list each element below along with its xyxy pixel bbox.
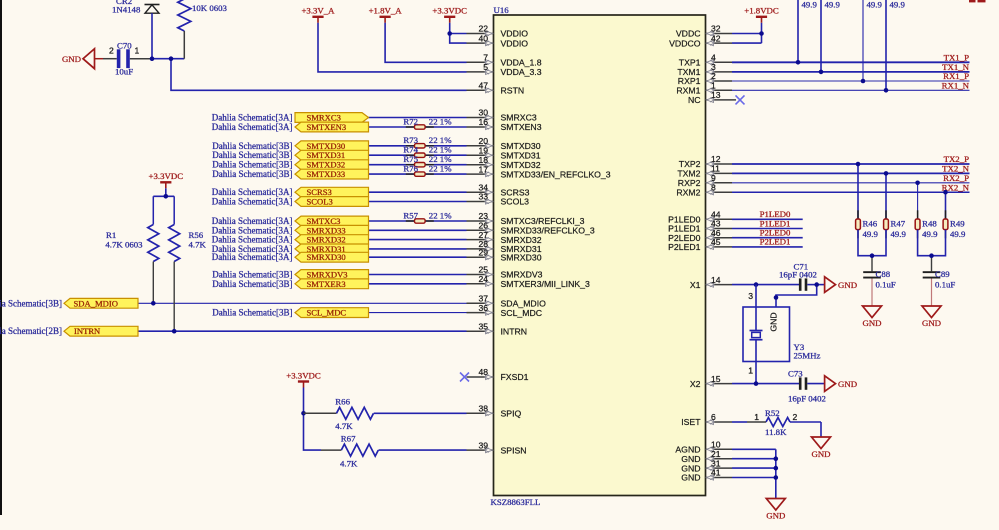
power +1.8V_A (369, 6, 403, 23)
wire SMTXD33 to pin (369, 173, 467, 175)
wire net RX1_P (732, 71, 970, 81)
resistor R56 4.7K (169, 196, 207, 331)
svg-text:Dahlia Schematic[3B]: Dahlia Schematic[3B] (212, 150, 292, 160)
svg-text:NC: NC (688, 95, 701, 105)
svg-text:SMRXD30: SMRXD30 (307, 252, 346, 262)
pin 32 VDDC (676, 24, 732, 39)
pin 43 P1LED1 (668, 219, 732, 234)
svg-text:4.7K: 4.7K (189, 239, 207, 249)
wire net P1LED0 (732, 209, 803, 219)
wire SMRXC3 to pin (369, 117, 467, 119)
sheet border edge (0, 0, 2, 515)
capacitor C88 0.1uF (863, 269, 896, 290)
svg-text:R49: R49 (950, 219, 965, 229)
svg-text:FXSD1: FXSD1 (501, 372, 529, 382)
svg-text:GND: GND (766, 511, 785, 521)
resistor R66 4.7K (304, 397, 467, 432)
svg-text:Dahlia Schematic[3B]: Dahlia Schematic[3B] (212, 169, 292, 179)
svg-text:GND: GND (681, 473, 700, 483)
pin 24 SMTXER3/MII_LINK_3 (467, 274, 590, 289)
svg-text:P2LED1: P2LED1 (668, 242, 701, 252)
svg-text:SMTXER3: SMTXER3 (307, 279, 346, 289)
resistor R76 22 1% (403, 164, 452, 177)
pin 26 SMRXD33/REFCLKO_3 (467, 221, 595, 236)
wire +3.3V_A to VDDA_3.3 (318, 23, 467, 72)
pin 15 X2 (690, 374, 732, 389)
node flag SCOL3 (295, 197, 369, 207)
svg-text:13: 13 (711, 90, 721, 100)
pin 35 INTRN (467, 321, 528, 336)
wire net RX2_P (732, 173, 970, 183)
svg-text:42: 42 (711, 33, 721, 43)
svg-text:SMRXC3: SMRXC3 (501, 113, 537, 123)
ground GND (C71) (825, 277, 857, 293)
pin 21 GND (681, 449, 732, 464)
pin 38 SPIQ (467, 404, 522, 419)
pin 9 RXP2 (678, 173, 732, 188)
pin 13 NC (688, 90, 736, 105)
wire SMRXD30 to pin (369, 256, 467, 258)
svg-text:VDDA_3.3: VDDA_3.3 (501, 67, 542, 77)
svg-text:R47: R47 (891, 219, 906, 229)
node flag SCL_MDC (295, 308, 369, 318)
pin 7 VDDA_1.8 (467, 53, 542, 68)
pin 14 X1 (690, 275, 732, 290)
resistor R1 4.7K 0603 (105, 196, 158, 303)
svg-text:3: 3 (748, 291, 753, 301)
svg-text:U16: U16 (494, 5, 510, 15)
resistor R75 22 1% (403, 154, 452, 167)
svg-text:4.7K: 4.7K (340, 458, 358, 468)
pin 23 SMTXC3/REFCLKI_3 (467, 211, 585, 226)
svg-text:X1: X1 (690, 280, 701, 290)
wire +1.8V_A to VDDA_1.8 (385, 23, 466, 63)
svg-text:SCOL3: SCOL3 (307, 197, 333, 207)
resistor 49.9 vertical wire 4 (top) (884, 0, 906, 93)
wire SCOL3 to pin (369, 201, 467, 203)
pin 45 P2LED1 (668, 237, 732, 252)
node flag SMTXER3 (295, 279, 369, 289)
svg-text:R67: R67 (341, 434, 356, 444)
pin 41 GND (681, 468, 732, 483)
svg-text:SCL_MDC: SCL_MDC (307, 308, 347, 318)
svg-text:X2: X2 (690, 379, 701, 389)
node flag SMRXD32 (295, 235, 369, 245)
svg-text:SDA_MDIO: SDA_MDIO (74, 298, 118, 308)
pin 4 TXP1 (679, 53, 732, 68)
node flag SCRS3 (295, 187, 369, 197)
wire net TX1_N (732, 62, 970, 72)
svg-text:SMTXD33: SMTXD33 (307, 169, 346, 179)
pin 34 SCRS3 (467, 182, 530, 197)
junction VDDC (759, 31, 764, 36)
capacitor C70 10uF (103, 41, 152, 77)
resistor R47 49.9 (884, 171, 907, 239)
pin 3 TXM1 (677, 62, 732, 77)
svg-text:1: 1 (748, 366, 753, 376)
pin 20 SMTXD30 (467, 136, 541, 151)
wire SMRXD31 to pin (369, 248, 467, 250)
wire SCRS3 to pin (369, 191, 467, 193)
pin 8 RXM2 (676, 182, 732, 197)
svg-text:+3.3V_A: +3.3V_A (301, 6, 335, 16)
wire +3.3VDC to VDDIO pins (450, 23, 467, 43)
svg-text:39: 39 (478, 440, 488, 450)
pin 42 VDDCO (669, 33, 732, 48)
junction crystal gnd pin (814, 282, 819, 287)
power +3.3VDC (top) (432, 6, 467, 23)
svg-text:30: 30 (478, 108, 488, 118)
svg-text:49.9: 49.9 (825, 0, 841, 10)
pin 37 SDA_MDIO (467, 294, 547, 309)
svg-text:49.9: 49.9 (891, 229, 907, 239)
junction X1 (754, 282, 759, 287)
ground GND (C89) (922, 306, 941, 328)
svg-text:RX1_N: RX1_N (942, 81, 970, 91)
svg-text:4: 4 (711, 53, 716, 63)
wire net P2LED1 (732, 237, 803, 247)
svg-text:49.9: 49.9 (922, 229, 938, 239)
svg-text:GND: GND (862, 318, 881, 328)
svg-text:2: 2 (793, 412, 798, 422)
pin 11 TXM2 (677, 164, 732, 179)
svg-text:4.7K 0603: 4.7K 0603 (105, 239, 143, 249)
svg-text:C89: C89 (935, 269, 950, 279)
node flag SMRXD33 (295, 225, 369, 235)
svg-text:32: 32 (711, 24, 721, 34)
pin 31 GND (681, 458, 732, 473)
pin 30 SMRXC3 (467, 108, 537, 123)
wire diode to junction (151, 13, 153, 59)
svg-text:GND: GND (838, 280, 857, 290)
wire SMTXC3 to pin (369, 220, 467, 222)
svg-text:+3.3VDC: +3.3VDC (286, 370, 321, 380)
svg-text:SCOL3: SCOL3 (501, 197, 530, 207)
node flag SMRXC3 (295, 113, 369, 123)
wire C88 to gnd (871, 279, 873, 306)
node flag SMTXD32 (295, 160, 369, 170)
pin 1 RXM1 (676, 81, 732, 96)
pin 39 SPISN (467, 440, 527, 455)
wire +1.8VDC to VDDC/VDDCO (761, 23, 763, 43)
wire C70 junction to corner (150, 58, 184, 60)
resistor 49.9 vertical wire 2 (top) (819, 0, 841, 74)
svg-text:VDDIO: VDDIO (501, 38, 529, 48)
wire SMTXEN3 to pin (369, 126, 467, 128)
resistor R57 22 1% (403, 210, 452, 223)
svg-text:16pF 0402: 16pF 0402 (779, 270, 817, 280)
svg-text:0.1uF: 0.1uF (935, 279, 955, 289)
svg-text:1: 1 (135, 46, 140, 56)
resistor R49 49.9 (943, 190, 966, 239)
svg-text:49.9: 49.9 (802, 0, 818, 10)
svg-text:SMRXC3: SMRXC3 (307, 113, 341, 123)
svg-text:TX1_P: TX1_P (944, 53, 970, 63)
svg-text:1N4148: 1N4148 (112, 5, 141, 15)
junction GND bus 21 (774, 456, 779, 461)
pin 6 ISET (681, 412, 732, 427)
pin 12 TXP2 (679, 154, 732, 169)
pin 17 SMTXD33/EN_REFCLKO_3 (467, 164, 611, 179)
svg-text:24: 24 (478, 274, 488, 284)
resistor R72 22 1% (403, 116, 452, 129)
wire R48/R49 join to C89 (918, 230, 946, 256)
pin 2 RXP1 (678, 71, 732, 86)
pin 16 SMTXEN3 (467, 117, 542, 132)
svg-text:5: 5 (483, 62, 488, 72)
svg-text:Dahlia Schematic[3B]: Dahlia Schematic[3B] (212, 279, 292, 289)
svg-text:49.9: 49.9 (867, 0, 883, 10)
resistor 49.9 vertical wire 1 (top) (796, 0, 818, 65)
node flag SMTXC3 (295, 216, 369, 226)
node flag SMRXD30 (295, 252, 369, 262)
pin 27 SMRXD32 (467, 230, 542, 245)
wire net TX1_P (732, 53, 970, 63)
svg-text:VDDIO: VDDIO (501, 29, 529, 39)
svg-text:+1.8V_A: +1.8V_A (369, 6, 403, 16)
ground GND (C88) (862, 306, 881, 328)
wire SMTXD31 to pin (369, 154, 467, 156)
svg-text:C88: C88 (876, 269, 891, 279)
node flag INTRN (64, 326, 138, 336)
net fragment top-right corner (969, 0, 976, 2)
node flag SMTXD30 (295, 141, 369, 151)
node flag SMRXDV3 (295, 270, 369, 280)
wire C71 to gnd (817, 284, 825, 286)
svg-text:22 1%: 22 1% (429, 116, 452, 126)
svg-text:SMTXD31: SMTXD31 (501, 150, 541, 160)
capacitor C73 16pF 0402 (788, 368, 826, 403)
wire R46/R47 join to C88 (858, 230, 886, 256)
no-connect X pin 13 (736, 95, 745, 104)
power +3.3V_A (301, 6, 335, 23)
svg-text:22 1%: 22 1% (429, 210, 452, 220)
svg-text:49.9: 49.9 (863, 229, 879, 239)
op-amp U16 KSZ8863FLL ic body (491, 5, 706, 507)
capacitor C89 0.1uF (923, 269, 956, 290)
svg-text:GND: GND (62, 54, 81, 64)
svg-text:1: 1 (711, 81, 716, 91)
svg-text:TXP1: TXP1 (679, 58, 701, 68)
resistor 10K 0603 (top) (178, 0, 228, 59)
wire net P1LED1 (732, 218, 803, 228)
svg-text:RXM1: RXM1 (676, 86, 700, 96)
svg-text:17: 17 (478, 164, 488, 174)
junction R66 feed (301, 411, 306, 416)
svg-text:35: 35 (478, 321, 488, 331)
svg-text:R48: R48 (922, 219, 937, 229)
power +3.3VDC (R1/R56) (149, 171, 184, 188)
wire SCL_MDC to pin (369, 312, 467, 314)
power +3.3VDC (SPI) (286, 370, 321, 387)
svg-text:47: 47 (478, 81, 488, 91)
node flag SDA_MDIO (64, 298, 138, 308)
junction GND bus 41 (774, 475, 779, 480)
svg-text:7: 7 (483, 53, 488, 63)
resistor R73 22 1% (403, 135, 452, 148)
diode CR2 1N4148 (112, 0, 160, 15)
svg-text:C73: C73 (788, 368, 803, 378)
svg-text:11.8K: 11.8K (765, 427, 787, 437)
svg-text:Dahlia Schematic[3A]: Dahlia Schematic[3A] (212, 122, 293, 132)
svg-text:VDDCO: VDDCO (669, 38, 701, 48)
ground GND (bottom bus) (766, 499, 785, 521)
svg-text:RXM2: RXM2 (676, 187, 700, 197)
wire RSTN from junction (171, 59, 467, 91)
svg-text:38: 38 (478, 404, 488, 414)
wire +3.3VDC to R66/R67 (303, 388, 305, 414)
wire SMTXER3 to pin (369, 283, 467, 285)
svg-text:8: 8 (711, 182, 716, 192)
svg-text:22 1%: 22 1% (429, 145, 452, 155)
svg-text:19: 19 (478, 145, 488, 155)
pin 5 VDDA_3.3 (467, 62, 542, 77)
svg-text:22: 22 (478, 24, 488, 34)
node flag SMTXD31 (295, 150, 369, 160)
wire SMRXDV3 to pin (369, 274, 467, 276)
svg-text:R74: R74 (403, 145, 418, 155)
svg-text:1: 1 (754, 412, 759, 422)
crystal Y3 25MHz (743, 285, 820, 384)
junction R56 to INTRN (172, 329, 177, 334)
wire net RX1_N (732, 81, 970, 91)
svg-text:Dahlia Schematic[3A]: Dahlia Schematic[3A] (212, 197, 293, 207)
svg-text:49.9: 49.9 (950, 229, 966, 239)
svg-text:INTRN: INTRN (74, 326, 101, 336)
wire net TX2_N (732, 164, 970, 174)
junction R1/R56 feed (164, 194, 169, 199)
svg-text:2: 2 (109, 46, 114, 56)
node flag SMTXEN3 (295, 122, 369, 132)
wire SMTXD30 to pin (369, 145, 467, 147)
junction RSTN takeoff (169, 56, 174, 61)
svg-text:48: 48 (478, 367, 488, 377)
svg-text:16pF 0402: 16pF 0402 (788, 394, 826, 404)
node flag SMTXD33 (295, 169, 369, 179)
wire net RX2_N (732, 182, 970, 192)
svg-text:40: 40 (478, 33, 488, 43)
resistor R52 11.8K (732, 408, 821, 437)
svg-text:SMTXER3/MII_LINK_3: SMTXER3/MII_LINK_3 (501, 279, 590, 289)
wire R52 to gnd (820, 422, 822, 437)
svg-text:14: 14 (711, 275, 721, 285)
svg-text:22 1%: 22 1% (429, 164, 452, 174)
pin 33 SCOL3 (467, 192, 530, 207)
power +1.8VDC (right) (744, 6, 779, 23)
svg-text:33: 33 (478, 192, 488, 202)
svg-text:0.1uF: 0.1uF (876, 279, 896, 289)
wire X2 to C73 (732, 383, 799, 385)
resistor R48 49.9 (915, 181, 938, 240)
svg-text:SMTXEN3: SMTXEN3 (307, 122, 347, 132)
svg-text:R72: R72 (403, 116, 418, 126)
wire +3.3VDC split to R1/R56 (165, 188, 167, 196)
svg-text:R46: R46 (863, 219, 878, 229)
pin 44 P1LED0 (668, 210, 732, 225)
wire SMRXD32 to pin (369, 239, 467, 241)
pin 46 P2LED0 (668, 228, 732, 243)
wire INTRN to pin (138, 330, 467, 332)
resistor R74 22 1% (403, 145, 452, 158)
resistor R46 49.9 (856, 162, 879, 239)
wire SMTXD32 to pin (369, 164, 467, 166)
svg-text:SMRXD30: SMRXD30 (501, 252, 542, 262)
node flag SMRXD31 (295, 244, 369, 254)
ground GND (C70 left) (62, 49, 103, 69)
wire X1 to C71 (732, 284, 799, 286)
svg-text:C70: C70 (117, 41, 132, 51)
svg-text:29: 29 (478, 247, 488, 257)
junction GND bus 31 (774, 466, 779, 471)
pin 18 SMTXD32 (467, 155, 541, 170)
ground GND (C73) (825, 376, 857, 392)
pin 47 RSTN (467, 81, 525, 96)
junction R46/R47 (870, 253, 875, 258)
pin 36 SCL_MDC (467, 303, 543, 318)
svg-text:GND: GND (922, 318, 941, 328)
svg-text:Dahlia Schematic[3A]: Dahlia Schematic[3A] (212, 252, 293, 262)
svg-text:49.9: 49.9 (890, 0, 906, 10)
pin 22 VDDIO (467, 24, 529, 39)
svg-text:41: 41 (711, 468, 721, 478)
junction R48/R49 (929, 253, 934, 258)
svg-text:SPISN: SPISN (501, 445, 527, 455)
svg-text:25MHz: 25MHz (794, 350, 821, 360)
svg-text:GND: GND (769, 312, 779, 331)
svg-text:36: 36 (478, 303, 488, 313)
wire C71 junction to crystal gnd pin (776, 285, 817, 307)
svg-text:P2LED1: P2LED1 (760, 237, 791, 247)
svg-text:10uF: 10uF (115, 67, 133, 77)
pin 28 SMRXD31 (467, 239, 542, 254)
capacitor C71 16pF 0402 (779, 261, 817, 291)
pin 40 VDDIO (467, 33, 529, 48)
pin 48 FXSD1 (467, 367, 529, 382)
svg-text:15: 15 (711, 374, 721, 384)
junction diode/C70 (150, 56, 155, 61)
svg-text:KSZ8863FLL: KSZ8863FLL (491, 497, 541, 507)
svg-text:SMTXEN3: SMTXEN3 (501, 122, 542, 132)
svg-text:GND: GND (811, 449, 830, 459)
svg-text:R57: R57 (403, 210, 418, 220)
svg-text:+1.8VDC: +1.8VDC (744, 6, 779, 16)
svg-text:R52: R52 (765, 408, 780, 418)
svg-text:INTRN: INTRN (501, 326, 528, 336)
svg-text:VDDA_1.8: VDDA_1.8 (501, 58, 542, 68)
svg-text:45: 45 (711, 237, 721, 247)
svg-text:6: 6 (711, 412, 716, 422)
svg-text:16: 16 (478, 117, 488, 127)
wire AGND/GND bus (732, 449, 776, 498)
wire SMRXD33 to pin (369, 229, 467, 231)
wire net P2LED0 (732, 228, 803, 238)
svg-text:R66: R66 (335, 397, 350, 407)
pin 29 SMRXD30 (467, 247, 542, 262)
svg-text:Dahlia Schematic[3B]: Dahlia Schematic[3B] (212, 308, 292, 318)
svg-text:VDDC: VDDC (676, 29, 701, 39)
svg-text:SCL_MDC: SCL_MDC (501, 308, 543, 318)
svg-text:SMTXD31: SMTXD31 (307, 150, 346, 160)
svg-text:Dahlia Schematic[3A]: Dahlia Schematic[3A] (212, 113, 293, 123)
svg-text:4.7K: 4.7K (335, 421, 353, 431)
pin 10 AGND (675, 440, 732, 455)
svg-text:+3.3VDC: +3.3VDC (149, 171, 184, 181)
svg-text:R76: R76 (403, 164, 418, 174)
svg-text:Dahlia Schematic[3B]: Dahlia Schematic[3B] (0, 298, 62, 308)
svg-text:10K 0603: 10K 0603 (192, 3, 228, 13)
wire SDA_MDIO to pin (138, 302, 467, 304)
wire C89 to gnd (931, 279, 933, 306)
